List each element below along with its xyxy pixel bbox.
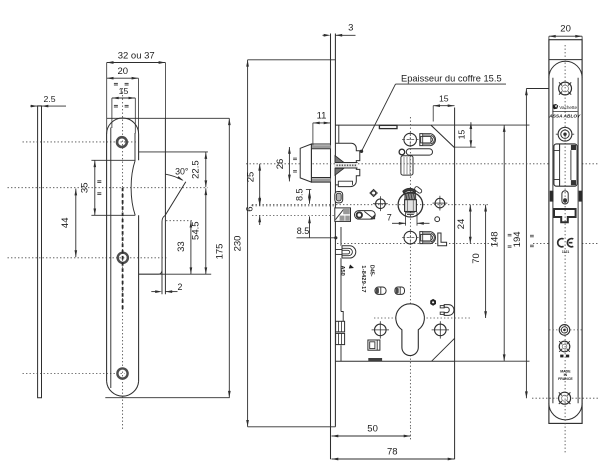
symmetry marks 148 bbox=[508, 233, 512, 235]
strike hole middle bbox=[118, 253, 128, 263]
strike cut edge upper bbox=[91, 159, 135, 161]
case inner wall bbox=[338, 125, 340, 143]
case corner diagonal bbox=[432, 338, 455, 361]
dim 44 bbox=[75, 189, 77, 258]
dim 6 bbox=[259, 197, 261, 206]
centre line top hole row bbox=[23, 141, 138, 143]
symmetry marks under 15 bbox=[114, 104, 118, 106]
aux centre line lower bbox=[252, 214, 336, 216]
hex nut bbox=[430, 299, 436, 306]
euro cylinder profile bbox=[396, 304, 425, 356]
bushing top bbox=[420, 134, 436, 146]
dim 3 faceplate thickness bbox=[323, 34, 327, 36]
latch axis centre line bbox=[246, 163, 598, 165]
spring housing bbox=[401, 156, 413, 175]
svg-text:175: 175 bbox=[214, 244, 225, 260]
svg-text:26: 26 bbox=[275, 159, 286, 170]
dim 8.5 upper bbox=[306, 189, 311, 191]
forend top joint line bbox=[549, 59, 582, 61]
dim 54.5 bbox=[205, 188, 207, 274]
lip left line bbox=[162, 216, 165, 294]
spindle square 7mm bbox=[405, 200, 417, 212]
forend dome bottom bbox=[549, 403, 582, 420]
forend dome top bbox=[549, 61, 582, 78]
orientation arrow bbox=[349, 265, 355, 270]
slider capsule right bbox=[395, 287, 405, 294]
strike hole bottom bbox=[117, 368, 127, 378]
latch bolt head bbox=[300, 144, 311, 182]
dim 20 strike bbox=[137, 78, 139, 133]
latch wedge lower bbox=[335, 168, 344, 175]
faceplate tab upper bbox=[336, 321, 345, 332]
bottom bar bbox=[368, 358, 382, 361]
follower cap bbox=[403, 188, 416, 193]
T slot bbox=[554, 209, 576, 222]
aux button piece bbox=[335, 192, 343, 203]
centre line latch axis strike bbox=[8, 187, 208, 189]
svg-text:FRANCE: FRANCE bbox=[558, 377, 573, 381]
dim 148 bbox=[503, 125, 505, 361]
latch window bbox=[554, 144, 577, 186]
centre line middle hole row bbox=[8, 257, 167, 259]
strike hole top bbox=[117, 137, 127, 147]
symmetry marks under 20 bbox=[114, 82, 118, 84]
symmetry marks 194 bbox=[530, 234, 534, 236]
rivet circle small bbox=[435, 217, 440, 222]
dim 70 bbox=[485, 205, 487, 318]
cross hole right bbox=[435, 198, 445, 208]
svg-text:194: 194 bbox=[512, 231, 523, 247]
top fixing slot bbox=[379, 125, 397, 128]
aux centre line upper bbox=[252, 205, 336, 207]
svg-text:D45-: D45- bbox=[369, 265, 375, 277]
svg-text:32 ou 37: 32 ou 37 bbox=[118, 51, 155, 62]
bushing bottom bbox=[420, 232, 436, 244]
dim 175 bbox=[228, 118, 230, 397]
dim 78 bbox=[332, 458, 455, 460]
slider box lower bbox=[368, 340, 380, 350]
forend cylinder ring bbox=[559, 325, 570, 336]
dim 2.5 bbox=[30, 105, 66, 107]
CE mark bbox=[558, 239, 564, 247]
strike cut edge lower bbox=[91, 214, 135, 216]
pin capsule bbox=[406, 149, 432, 155]
svg-text:230: 230 bbox=[232, 236, 243, 252]
aux deadlatch block bbox=[335, 208, 351, 222]
follower hub bbox=[398, 192, 423, 217]
cross hole left bbox=[376, 199, 386, 209]
cylinder axis centre line bbox=[374, 317, 472, 319]
strike plate fold line left bbox=[110, 128, 112, 389]
dim 230 bbox=[247, 60, 249, 427]
latch lip curve bbox=[131, 160, 135, 215]
svg-text:30°: 30° bbox=[175, 167, 188, 177]
angle 30 annotation bbox=[166, 174, 183, 180]
screw hole top bbox=[404, 133, 417, 146]
pivot circle small bbox=[399, 149, 405, 155]
dim 24 bbox=[469, 205, 471, 244]
cylinder axis vertical centre line bbox=[409, 117, 411, 428]
dim 8.5 lower bbox=[309, 216, 311, 237]
dim 32 ou 37 bbox=[106, 63, 108, 134]
svg-text:8.5: 8.5 bbox=[295, 189, 305, 202]
svg-text:35: 35 bbox=[80, 183, 91, 194]
strike box bottom edge bbox=[139, 271, 162, 274]
svg-text:20: 20 bbox=[118, 66, 129, 77]
faceplate tab lower bbox=[336, 333, 345, 344]
latch bolt body bbox=[335, 143, 360, 186]
deadbolt nested bbox=[342, 246, 356, 258]
forend outer plate bbox=[549, 40, 582, 424]
svg-text:8.5: 8.5 bbox=[297, 226, 310, 236]
svg-text:6.: 6. bbox=[244, 204, 255, 212]
follower axis centre line bbox=[252, 204, 489, 206]
strike box step edge bbox=[139, 151, 208, 153]
slider capsule left bbox=[375, 287, 386, 294]
svg-text:15: 15 bbox=[119, 86, 129, 96]
forend inner edges bbox=[552, 78, 554, 404]
svg-text:1-8429-17: 1-8429-17 bbox=[360, 265, 366, 292]
dim 50 bbox=[332, 435, 411, 437]
aux slider capsule bbox=[355, 211, 376, 220]
svg-text:24: 24 bbox=[456, 219, 467, 230]
svg-text:50: 50 bbox=[367, 424, 378, 435]
aux bolt row bbox=[550, 191, 554, 202]
svg-text:54.5: 54.5 bbox=[190, 221, 201, 240]
forend centre line bbox=[564, 45, 566, 453]
follower neck hatched bbox=[405, 194, 416, 200]
faceplate edge view bbox=[330, 34, 332, 460]
latch spring band bbox=[335, 163, 358, 169]
screw hole bottom bbox=[404, 231, 417, 244]
hidden edge dashed centre bbox=[122, 188, 124, 311]
forend screw hole top bbox=[559, 82, 572, 95]
centre line lip transition bbox=[166, 220, 194, 222]
centre line bottom hole row bbox=[23, 373, 125, 375]
svg-text:15: 15 bbox=[439, 93, 449, 103]
svg-text:Epaisseur du coffre 15.5: Epaisseur du coffre 15.5 bbox=[401, 74, 502, 84]
svg-text:25: 25 bbox=[246, 172, 257, 183]
svg-text:2: 2 bbox=[177, 282, 182, 292]
svg-text:33: 33 bbox=[176, 241, 187, 252]
svg-text:70: 70 bbox=[471, 253, 482, 264]
cylinder clamp bbox=[444, 305, 454, 316]
lip slant 30deg bbox=[165, 182, 186, 216]
centre line 24 lower bbox=[337, 243, 496, 245]
cross hole lower left bbox=[375, 324, 387, 336]
dim 22.5 bbox=[205, 152, 207, 187]
dim 7 square bbox=[405, 212, 407, 226]
cross hole lower right bbox=[435, 324, 447, 336]
svg-text:2.5: 2.5 bbox=[43, 94, 55, 104]
forend screw hole bottom bbox=[559, 392, 571, 404]
dim 15 top chamfer bbox=[432, 106, 434, 122]
forend euro screw bbox=[559, 341, 570, 352]
dim 35 bbox=[94, 160, 96, 215]
svg-text:20: 20 bbox=[560, 24, 571, 35]
svg-text:44: 44 bbox=[60, 218, 71, 229]
dim 20 forend bbox=[548, 36, 550, 40]
vachette logo bbox=[553, 104, 559, 109]
dim 33 bbox=[190, 221, 192, 275]
svg-text:A50: A50 bbox=[339, 266, 345, 276]
lock case outline bbox=[335, 124, 431, 126]
svg-text:148: 148 bbox=[490, 231, 501, 247]
strike plate fold line right upper bbox=[134, 133, 136, 160]
strike centre line vertical bbox=[122, 88, 124, 430]
svg-text:3: 3 bbox=[348, 22, 353, 33]
diamond hole bbox=[370, 189, 377, 196]
side view thin strike plate bbox=[38, 106, 42, 398]
dim 11 bbox=[312, 123, 314, 146]
strike top edge line bbox=[107, 117, 230, 119]
symmetry marks at 35 bbox=[97, 180, 101, 182]
symmetry marks 26 bbox=[293, 157, 297, 159]
latch wedge upper bbox=[335, 156, 344, 163]
strike bottom edge line bbox=[105, 397, 229, 399]
L bracket piece bbox=[438, 233, 447, 246]
svg-text:7: 7 bbox=[387, 213, 392, 223]
strike box right edge bbox=[164, 118, 166, 294]
svg-text:15: 15 bbox=[457, 130, 467, 140]
latch foot bbox=[338, 181, 352, 185]
forend ring hole bbox=[556, 133, 558, 135]
dim 26 bbox=[288, 147, 290, 181]
svg-text:78: 78 bbox=[387, 447, 398, 458]
dim 194 bbox=[525, 89, 527, 399]
svg-text:Vachette: Vachette bbox=[559, 105, 577, 110]
svg-text:11: 11 bbox=[317, 110, 327, 121]
strike plate outline bbox=[107, 118, 139, 381]
dim 15 right chamfer bbox=[455, 146, 476, 148]
dim 2 lip thickness bbox=[151, 291, 155, 293]
follower flag tab bbox=[414, 186, 423, 194]
dim 15 strike bbox=[111, 98, 113, 128]
svg-text:ASSA ABLOY: ASSA ABLOY bbox=[548, 113, 581, 119]
svg-text:22.5: 22.5 bbox=[190, 160, 201, 179]
dim 25 bbox=[259, 164, 261, 205]
svg-text:1121: 1121 bbox=[562, 250, 569, 254]
